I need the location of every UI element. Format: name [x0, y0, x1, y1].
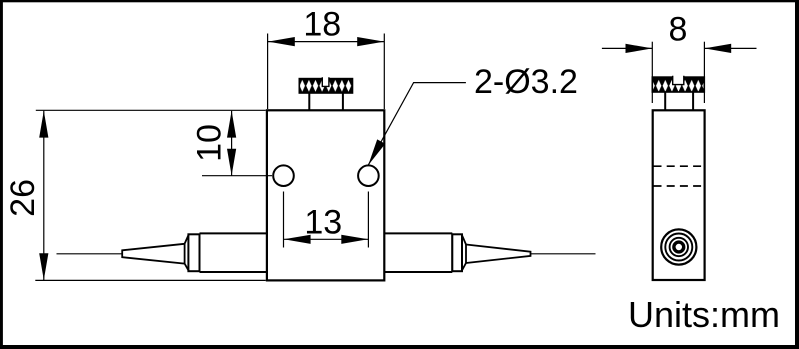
right pigtail ring	[452, 234, 462, 271]
extension line left of 8	[651, 42, 653, 103]
arrowhead 13 left	[284, 235, 311, 244]
thumbscrew stem (front)	[309, 93, 343, 110]
left pigtail cylinder	[200, 233, 267, 272]
leader polyline	[368, 83, 466, 166]
extension line below left hole	[283, 192, 285, 248]
left pigtail cone	[122, 244, 184, 264]
arrowhead 18 left	[268, 37, 295, 46]
fiber port concentric circles (side)	[661, 229, 696, 264]
extension line bottom of 26	[35, 279, 265, 281]
right pigtail cone	[466, 245, 531, 264]
extension line left of 18	[267, 34, 269, 110]
arrowhead 13 right	[341, 235, 368, 244]
arrowhead 8 left (pointing right)	[626, 44, 653, 53]
arrowhead 8 right (pointing left)	[704, 44, 731, 53]
extension line right of 8	[703, 42, 705, 103]
dimension line 10	[231, 111, 233, 176]
arrowhead 10 bottom	[227, 149, 236, 176]
left fiber line	[57, 253, 123, 255]
svg-text:13: 13	[304, 204, 342, 242]
extension line right of 18	[383, 34, 385, 110]
left pigtail ring	[188, 234, 199, 271]
arrowhead 26 bottom	[39, 253, 48, 280]
extension line top of 26	[36, 109, 266, 111]
dimension line 13	[284, 238, 368, 240]
arrowhead 10 top	[227, 111, 236, 138]
thumbscrew stem (side)	[665, 92, 693, 110]
body rectangle (18x26 block)	[267, 110, 384, 280]
dimension line 26	[43, 111, 45, 280]
dimension tail right	[705, 47, 757, 49]
leader arrowhead	[368, 139, 385, 165]
svg-text:18: 18	[303, 5, 341, 43]
extension line below right hole	[367, 192, 369, 248]
side body rectangle	[653, 110, 705, 280]
thumbscrew knurled head (front)	[299, 77, 352, 93]
extension line at hole center level	[202, 175, 272, 177]
hidden hole dashed line upper (side)	[654, 165, 704, 167]
svg-text:Units:mm: Units:mm	[628, 294, 780, 335]
dimension tail left	[602, 47, 652, 49]
arrowhead 26 top	[39, 111, 48, 138]
dimension line 18	[268, 41, 384, 43]
svg-text:2-Ø3.2: 2-Ø3.2	[474, 63, 578, 101]
hidden hole dashed line lower (side)	[654, 185, 704, 187]
svg-text:26: 26	[4, 179, 42, 217]
svg-text:8: 8	[669, 11, 688, 49]
hole right (front)	[358, 165, 379, 186]
right pigtail chamfer	[462, 235, 466, 270]
right fiber line	[531, 253, 596, 255]
hole left (front)	[273, 165, 294, 186]
right pigtail cylinder	[384, 233, 452, 272]
arrowhead 18 right	[357, 37, 384, 46]
left pigtail chamfer	[185, 235, 189, 270]
thumbscrew knurled head (side)	[652, 76, 704, 92]
svg-text:10: 10	[191, 124, 229, 162]
